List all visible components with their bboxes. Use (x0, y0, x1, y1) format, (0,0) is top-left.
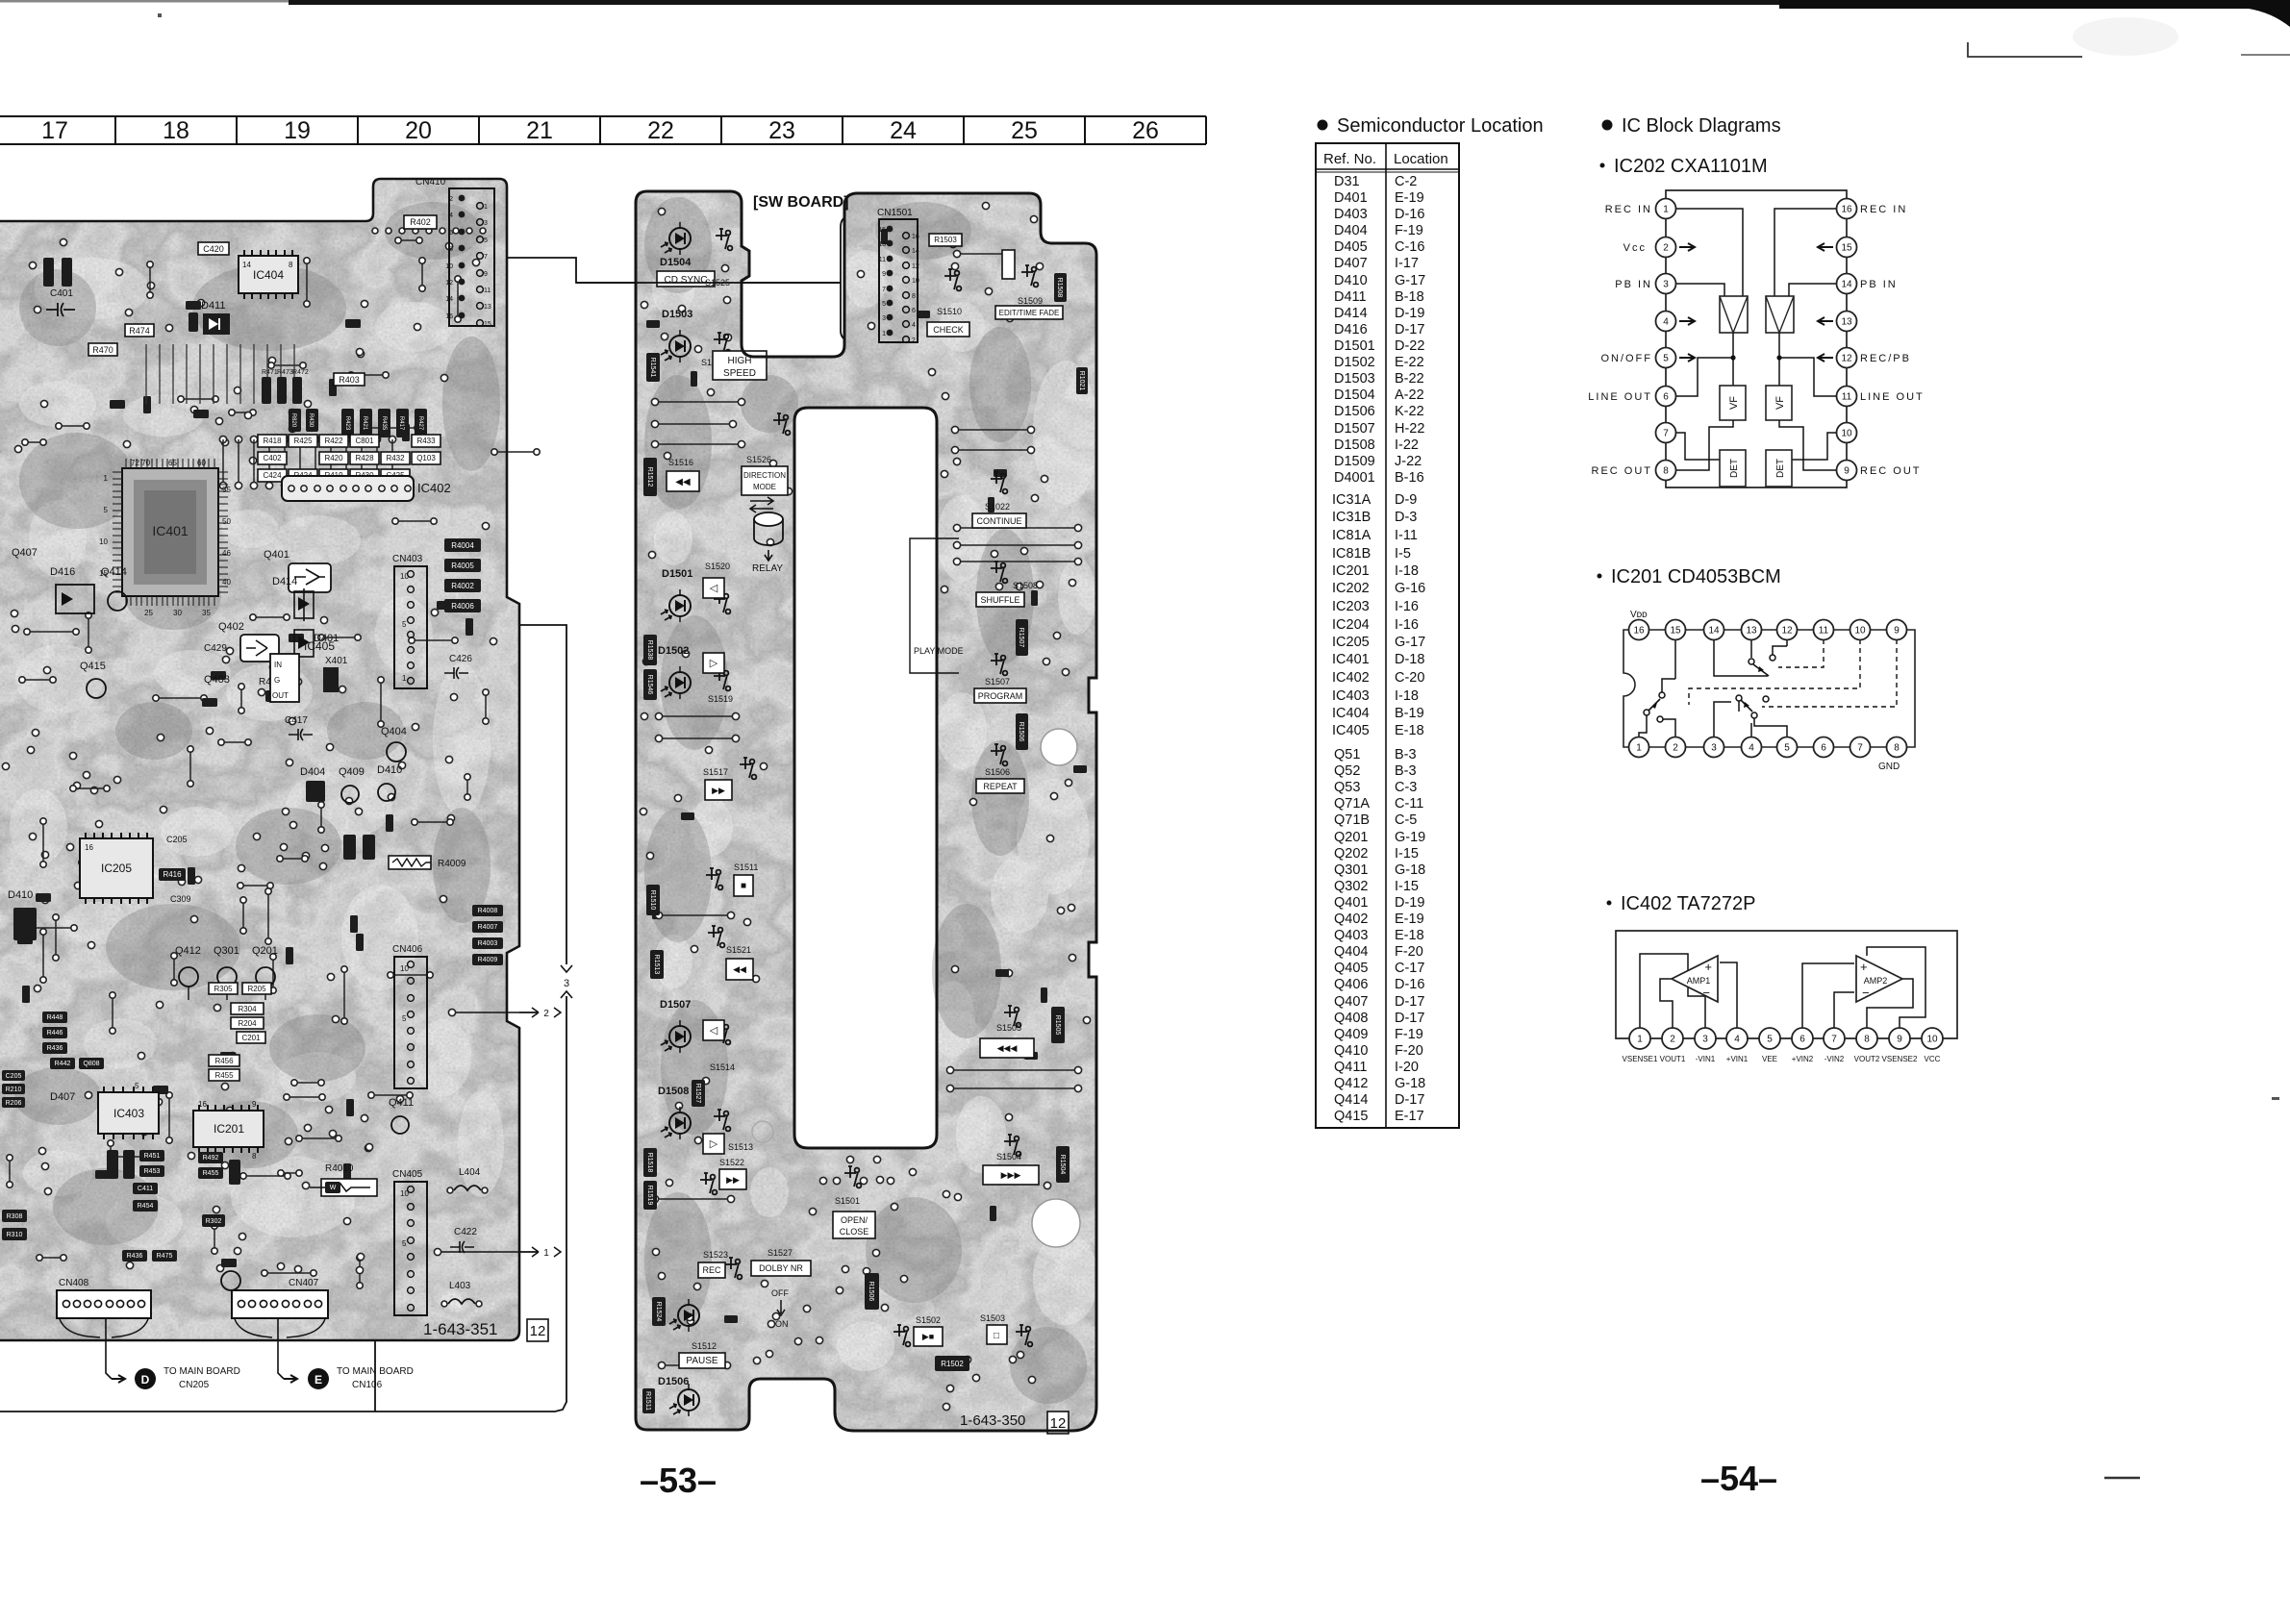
svg-text:C-16: C-16 (1395, 239, 1424, 255)
svg-text:R1508: R1508 (1056, 278, 1063, 298)
svg-text:CN405: CN405 (392, 1169, 423, 1180)
svg-text:2: 2 (449, 196, 453, 203)
svg-text:Q409: Q409 (339, 766, 365, 778)
svg-text:I-11: I-11 (1395, 528, 1418, 543)
svg-text:R442: R442 (55, 1061, 71, 1067)
resistor R302 (202, 1214, 225, 1227)
resistor R1506v (1016, 713, 1028, 750)
resistors R308 R310 (2, 1210, 27, 1222)
svg-text:B-18: B-18 (1395, 289, 1424, 305)
svg-text:10: 10 (99, 537, 108, 546)
svg-text:10: 10 (400, 964, 409, 973)
svg-text:1: 1 (104, 474, 109, 483)
label CHECK (927, 322, 969, 337)
svg-text:2: 2 (543, 1009, 549, 1019)
svg-text:R4007: R4007 (478, 924, 498, 931)
svg-text:R310: R310 (7, 1232, 23, 1238)
svg-text:S1523: S1523 (703, 1250, 728, 1260)
svg-text:CLOSE: CLOSE (840, 1227, 869, 1237)
svg-text:▶▶: ▶▶ (712, 786, 725, 795)
wire VF1 to pin8 (1676, 420, 1733, 470)
svg-text:D401: D401 (1334, 190, 1368, 206)
svg-text:G-17: G-17 (1395, 635, 1425, 650)
svg-text:15: 15 (878, 227, 886, 234)
svg-text:[SW BOARD]: [SW BOARD] (753, 194, 849, 211)
svg-text:14: 14 (1708, 626, 1720, 637)
svg-text:Q71A: Q71A (1334, 796, 1370, 812)
svg-text:R4003: R4003 (478, 940, 498, 947)
svg-text:E: E (315, 1373, 322, 1387)
resistor R403 (334, 373, 365, 386)
svg-text:R206: R206 (6, 1100, 22, 1107)
SW board outline stroke (636, 191, 1096, 1431)
LED D1502 (658, 645, 691, 699)
svg-text:+VIN1: +VIN1 (1726, 1055, 1749, 1063)
svg-text:5: 5 (402, 1239, 407, 1248)
label SHUFFLE (976, 592, 1024, 607)
svg-text:S1519: S1519 (708, 694, 733, 704)
svg-text:Q415: Q415 (1334, 1109, 1368, 1124)
svg-text:Q402: Q402 (1334, 912, 1368, 927)
IC201 pin 4 (1742, 737, 1762, 758)
svg-text:IC201 CD4053BCM: IC201 CD4053BCM (1611, 566, 1781, 587)
grid ruler columns 17-26 (0, 116, 1206, 144)
svg-text:RELAY: RELAY (752, 563, 783, 574)
svg-text:D-16: D-16 (1395, 207, 1424, 222)
wire pin1 feedback (1640, 954, 1718, 1028)
svg-text:Q302: Q302 (1334, 879, 1368, 894)
svg-text:R403: R403 (339, 375, 360, 385)
IC IC201 (193, 1105, 264, 1153)
svg-text:R416: R416 (163, 870, 182, 879)
svg-text:12: 12 (1781, 626, 1793, 637)
svg-text:14: 14 (1841, 280, 1852, 290)
svg-text:CN403: CN403 (392, 554, 423, 564)
svg-text:S1505: S1505 (996, 1023, 1021, 1033)
svg-text:MODE: MODE (753, 483, 776, 491)
svg-text:D4001: D4001 (1334, 470, 1375, 486)
svg-text:B-19: B-19 (1395, 706, 1424, 721)
svg-text:IC202 CXA1101M: IC202 CXA1101M (1614, 156, 1768, 177)
svg-text:Q407: Q407 (12, 547, 38, 559)
svg-text:16: 16 (85, 843, 93, 852)
resistors R305 R205 (209, 983, 238, 994)
switch S1022 continue (985, 472, 1010, 512)
svg-text:C402: C402 (263, 454, 282, 462)
svg-text:7: 7 (1663, 429, 1669, 439)
svg-text:I-18: I-18 (1395, 688, 1419, 704)
IC IC405 + crystal X401 (270, 639, 348, 702)
svg-text:I-17: I-17 (1395, 256, 1419, 271)
IC202 pin 9 (1837, 461, 1857, 481)
svg-text:4: 4 (912, 322, 916, 329)
svg-text:C-3: C-3 (1395, 780, 1417, 795)
IC202 pin 10 (1837, 423, 1857, 443)
svg-text:G-17: G-17 (1395, 273, 1425, 288)
svg-text:I-5: I-5 (1395, 546, 1411, 562)
svg-text:D1507: D1507 (660, 999, 691, 1011)
capacitor C422 (450, 1227, 477, 1253)
IC402 pin 10 (1922, 1028, 1943, 1049)
svg-text:Q808: Q808 (83, 1061, 99, 1067)
diode D410 label lower (8, 889, 37, 940)
svg-text:R1513: R1513 (653, 955, 660, 975)
svg-text:R475: R475 (157, 1253, 173, 1260)
resistors R452 C409 R451 R453 C411 R454 cluster (107, 1150, 118, 1179)
svg-text:R423: R423 (344, 416, 350, 431)
hole ring A (1041, 729, 1077, 765)
svg-text:IC402 TA7272P: IC402 TA7272P (1621, 893, 1755, 914)
svg-text:R1524: R1524 (655, 1302, 662, 1322)
svg-text:IC404: IC404 (1332, 706, 1370, 721)
svg-text:S1516: S1516 (668, 458, 693, 467)
switch S1502 play (893, 1315, 943, 1346)
svg-text:R1505: R1505 (1054, 1015, 1061, 1036)
svg-text:E-22: E-22 (1395, 355, 1424, 370)
svg-text:C201: C201 (241, 1034, 261, 1042)
svg-text:R453: R453 (144, 1168, 161, 1175)
wire pin6 line out (1676, 358, 1731, 396)
IC202 pin 7 (1656, 423, 1676, 443)
svg-text:R436: R436 (127, 1253, 143, 1260)
svg-text:◀◀: ◀◀ (733, 964, 746, 974)
play mode bracket (910, 538, 964, 673)
svg-text:R1502: R1502 (941, 1360, 964, 1368)
svg-text:18: 18 (163, 117, 189, 144)
svg-text:1: 1 (484, 204, 488, 211)
svg-text:D1503: D1503 (1334, 371, 1375, 387)
op-amp AMP2 (1856, 956, 1902, 1002)
svg-text:G-16: G-16 (1395, 581, 1425, 596)
svg-text:D411: D411 (201, 300, 225, 312)
svg-text:R455: R455 (214, 1071, 234, 1080)
hole ring C (752, 1121, 773, 1142)
IC402 pin 2 (1662, 1028, 1683, 1049)
svg-text:R433: R433 (416, 437, 436, 445)
svg-text:R4005: R4005 (451, 562, 474, 570)
svg-text:S1501: S1501 (835, 1196, 860, 1206)
svg-text:D414: D414 (272, 576, 297, 587)
svg-text:Q404: Q404 (381, 726, 407, 737)
svg-text:1-643-351: 1-643-351 (423, 1320, 498, 1338)
LED D1501 (661, 568, 692, 622)
resistor cluster R423 R421 R435 R417 R427 (341, 409, 354, 437)
svg-text:R308: R308 (7, 1213, 23, 1220)
svg-text:D-17: D-17 (1395, 994, 1424, 1010)
LED D1503 (661, 309, 692, 362)
resistor R4099 (259, 677, 288, 702)
connector CN410 (415, 177, 494, 328)
svg-text:R417: R417 (398, 416, 404, 431)
svg-text:ON/OFF: ON/OFF (1600, 353, 1652, 364)
wire pin14 feed (1714, 639, 1768, 676)
svg-text:I-18: I-18 (1395, 563, 1419, 579)
svg-text:D1506: D1506 (658, 1376, 689, 1387)
svg-text:Q412: Q412 (1334, 1076, 1368, 1091)
svg-text:40: 40 (222, 578, 231, 587)
svg-text:CN406: CN406 (392, 944, 423, 955)
switch S1503 stop (980, 1313, 1032, 1346)
resistor R1527 (692, 1080, 705, 1107)
IC202 pin 8 (1656, 461, 1676, 481)
resistor R1503 (929, 234, 962, 246)
svg-text:C401: C401 (50, 288, 73, 299)
IC202 body outline (1666, 190, 1847, 487)
svg-text:2: 2 (1670, 1035, 1675, 1045)
wire head1 to VF1 (1732, 333, 1734, 386)
svg-text:F-20: F-20 (1395, 1043, 1423, 1059)
wire pin9 feedback2 (1867, 947, 1925, 1028)
svg-text:D1504: D1504 (660, 257, 692, 268)
svg-text:1: 1 (1636, 743, 1642, 754)
svg-text:Q201: Q201 (252, 945, 278, 957)
svg-text:D1501: D1501 (1334, 338, 1375, 354)
resistors R448 R449 (343, 835, 356, 860)
resistors R304 R204 C201 (231, 1003, 264, 1014)
svg-text:S1517: S1517 (703, 767, 728, 777)
capacitor C426 (444, 654, 472, 679)
resistor R1512 (643, 458, 657, 496)
switch S1523 record (698, 1250, 742, 1279)
svg-text:Ref. No.: Ref. No. (1323, 151, 1376, 167)
svg-text:IC405: IC405 (1332, 723, 1370, 738)
svg-text:10: 10 (400, 572, 409, 581)
svg-text:16: 16 (445, 313, 453, 320)
switch S1506 repeat (985, 744, 1010, 777)
switch S1513 (703, 1110, 753, 1154)
svg-text:6: 6 (912, 308, 916, 314)
svg-text:R436: R436 (47, 1045, 63, 1052)
svg-text:13: 13 (878, 241, 886, 248)
svg-text:R1512: R1512 (646, 467, 653, 487)
svg-text:REC IN: REC IN (1860, 204, 1907, 215)
svg-text:22: 22 (647, 117, 674, 144)
svg-text:▷: ▷ (710, 658, 718, 669)
svg-text:LINE OUT: LINE OUT (1588, 391, 1652, 403)
svg-text:D1508: D1508 (658, 1086, 689, 1097)
IC201 package outline (1623, 630, 1915, 747)
svg-text:Q201: Q201 (1334, 830, 1368, 845)
label HIGH SPEED (713, 351, 767, 380)
svg-text:Q411: Q411 (1334, 1060, 1367, 1075)
IC202 pin 11 (1837, 387, 1857, 407)
svg-text:IC402: IC402 (1332, 670, 1370, 686)
resistor R416 (159, 868, 186, 881)
svg-text:D-22: D-22 (1395, 338, 1424, 354)
LED D1504 (660, 222, 692, 268)
IC IC205 (80, 833, 153, 904)
svg-text:R1511: R1511 (644, 1391, 651, 1411)
svg-text:S1504: S1504 (996, 1152, 1021, 1162)
switch S1524-B (701, 333, 732, 367)
svg-text:14: 14 (242, 261, 251, 269)
switch S1526 + label DIRECTION MODE (742, 413, 790, 512)
svg-text:1: 1 (1663, 205, 1669, 215)
svg-text:SHUFFLE: SHUFFLE (980, 595, 1019, 605)
svg-text:W: W (330, 1185, 337, 1191)
svg-text:11: 11 (1842, 392, 1852, 403)
svg-text:VOUT2: VOUT2 (1854, 1055, 1880, 1063)
svg-text:15: 15 (1841, 243, 1852, 254)
svg-text:B-22: B-22 (1395, 371, 1424, 387)
switch T (pins 13/12/11) (1749, 639, 1787, 676)
svg-text:IC81A: IC81A (1332, 528, 1371, 543)
svg-text:R1546: R1546 (646, 675, 653, 695)
svg-text:S1522: S1522 (719, 1158, 744, 1167)
SMD component scatter (left board) (17, 255, 473, 1267)
switch BM (pins 3/4/5) (1714, 695, 1787, 737)
resistors R404 R405 (43, 258, 54, 287)
svg-text:IC Block Dlagrams: IC Block Dlagrams (1622, 115, 1781, 137)
switch S1522 (700, 1158, 746, 1194)
wire pin16 to head2 (1774, 209, 1836, 296)
svg-text:3: 3 (1711, 743, 1717, 754)
resistor label-box grid R418..C425 (258, 435, 287, 447)
wire interconnect over column (576, 282, 841, 284)
svg-text:R1519: R1519 (646, 1186, 653, 1206)
svg-text:Q52: Q52 (1334, 763, 1360, 779)
wire pin10 to DET2 (1792, 433, 1836, 460)
resistors R1538 R1546 (643, 635, 657, 665)
svg-text:VSENSE2: VSENSE2 (1882, 1055, 1918, 1063)
svg-text:Q414: Q414 (1334, 1092, 1368, 1108)
svg-text:I-16: I-16 (1395, 599, 1419, 614)
svg-text:VEE: VEE (1762, 1055, 1777, 1063)
svg-text:7: 7 (1857, 743, 1863, 754)
svg-text:CHECK: CHECK (933, 325, 964, 335)
svg-text:J-22: J-22 (1395, 454, 1422, 469)
switch S1516 rewind (667, 458, 699, 491)
svg-text:R205: R205 (247, 985, 266, 993)
resistor R1513 (650, 950, 664, 979)
svg-text:S1022: S1022 (985, 502, 1010, 512)
svg-text:R456: R456 (214, 1057, 234, 1065)
svg-text:Location: Location (1394, 151, 1448, 167)
svg-text:AMP1: AMP1 (1687, 976, 1711, 986)
LED D1509 (652, 1297, 699, 1332)
svg-text:R472: R472 (292, 369, 309, 376)
diode D404 (300, 766, 325, 802)
svg-text:R473: R473 (277, 369, 293, 376)
svg-text:1: 1 (1637, 1035, 1643, 1045)
svg-text:14: 14 (912, 248, 919, 255)
svg-text:X401: X401 (325, 656, 348, 666)
svg-text:C205: C205 (166, 835, 188, 844)
svg-text:8: 8 (449, 246, 453, 253)
wire pin7 inverting2 (1834, 992, 1854, 1028)
svg-text:Q409: Q409 (1334, 1027, 1368, 1042)
small speck marks (158, 13, 2279, 1100)
svg-text:R4002: R4002 (451, 582, 474, 590)
svg-text:1: 1 (543, 1248, 549, 1259)
diode D401 (294, 630, 339, 657)
label REPEAT (976, 779, 1024, 793)
wire VF2 to pin9 (1779, 420, 1836, 470)
svg-text:10: 10 (1841, 429, 1852, 439)
svg-text:Q412: Q412 (175, 945, 201, 957)
LED D1506 (642, 1376, 699, 1416)
svg-text:C-17: C-17 (1395, 961, 1424, 976)
via and trace scatter (left board) (2, 228, 540, 1288)
svg-text:D403: D403 (1334, 207, 1368, 222)
wire pin2 output (1660, 979, 1673, 1028)
svg-text:OPEN/: OPEN/ (841, 1215, 868, 1225)
svg-text:Q411: Q411 (389, 1097, 414, 1109)
svg-text:10: 10 (1926, 1035, 1938, 1045)
IC202 arrows (1679, 243, 1833, 362)
svg-text:R4008: R4008 (478, 908, 498, 914)
svg-text:R204: R204 (238, 1019, 257, 1028)
svg-text:Vcc: Vcc (1623, 242, 1647, 254)
svg-text:IN: IN (274, 661, 282, 669)
SMD component scatter (SW board) (646, 229, 1087, 1323)
svg-text:R425: R425 (293, 437, 313, 445)
diode D416 / transistor Q414 (50, 566, 127, 613)
via scatter (SW board) (640, 202, 1090, 1410)
svg-text:10: 10 (1854, 626, 1866, 637)
svg-text:S1513: S1513 (728, 1142, 753, 1152)
svg-text:10: 10 (400, 1189, 409, 1198)
IC IC403 (98, 1087, 159, 1139)
svg-text:PLAY MODE: PLAY MODE (914, 646, 964, 656)
resistor R1509 top (1002, 250, 1015, 279)
resistors R471 R473 R472 (262, 377, 271, 404)
svg-text:VCC: VCC (1925, 1055, 1941, 1063)
pad cluster bridge (766, 1156, 907, 1357)
svg-text:50: 50 (222, 517, 231, 526)
switch S1509 (1018, 265, 1043, 306)
IC201 block diagram (1623, 610, 1915, 772)
svg-text:D410: D410 (1334, 273, 1368, 288)
resistor R470 (88, 343, 117, 356)
svg-text:REC IN: REC IN (1605, 204, 1652, 215)
svg-text:2: 2 (1673, 743, 1678, 754)
resistors C205 R210 R206 (2, 1070, 25, 1081)
IC202 pin 12 (1837, 348, 1857, 368)
svg-text:S1521: S1521 (726, 945, 751, 955)
transistor Q415 (80, 661, 106, 698)
svg-text:REC OUT: REC OUT (1592, 465, 1653, 477)
svg-text:Q401: Q401 (264, 549, 289, 561)
svg-text:E-17: E-17 (1395, 1109, 1424, 1124)
svg-text:R454: R454 (138, 1203, 154, 1210)
wire pin14 to head2 (1789, 284, 1836, 296)
svg-text:Q405: Q405 (1334, 961, 1368, 976)
svg-text:9: 9 (1894, 626, 1900, 637)
svg-text:7: 7 (1831, 1035, 1837, 1045)
switch S1510 (937, 269, 962, 316)
svg-text:26: 26 (1132, 117, 1159, 144)
svg-text:3: 3 (1702, 1035, 1708, 1045)
svg-text:14: 14 (445, 296, 453, 303)
op-amp IC202 block diagram (1588, 190, 1924, 487)
scan smudge top right (2073, 17, 2178, 56)
svg-text:21: 21 (526, 117, 553, 144)
resistors R492 R455 cluster (198, 1152, 223, 1163)
svg-text:TO MAIN BOARD: TO MAIN BOARD (164, 1366, 240, 1377)
svg-text:SPEED: SPEED (723, 368, 756, 379)
svg-text:CONTINUE: CONTINUE (977, 516, 1022, 526)
IC402 body outline (1616, 931, 1957, 1038)
wire stub into board bottom (374, 1340, 376, 1412)
svg-text:IC203: IC203 (1332, 599, 1370, 614)
connector funnel CN408 (60, 1319, 148, 1337)
svg-text:3: 3 (484, 220, 488, 227)
svg-text:S1502: S1502 (916, 1315, 941, 1325)
svg-text:Q103: Q103 (416, 454, 436, 462)
svg-text:9: 9 (1844, 466, 1850, 477)
right edge tick mark (2241, 54, 2290, 56)
